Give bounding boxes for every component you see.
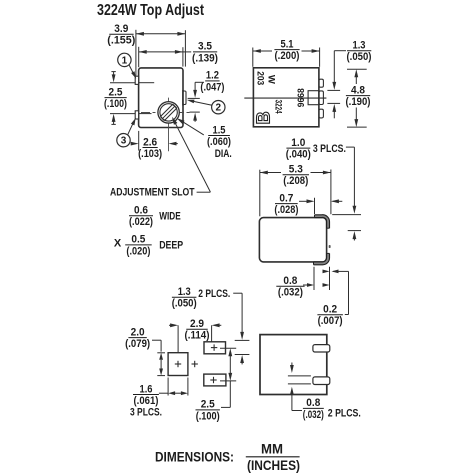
svg-text:1.3: 1.3 [353, 40, 366, 52]
svg-text:2 PLCS.: 2 PLCS. [198, 288, 230, 300]
svg-text:(.028): (.028) [274, 204, 298, 216]
svg-text:(.060): (.060) [207, 136, 231, 148]
svg-text:2.9: 2.9 [190, 318, 204, 330]
svg-text:2 PLCS.: 2 PLCS. [328, 408, 361, 420]
svg-text:(.032): (.032) [278, 287, 303, 299]
svg-text:1.6: 1.6 [140, 383, 153, 395]
svg-text:4.8: 4.8 [351, 84, 365, 96]
svg-text:(.007): (.007) [318, 315, 343, 327]
svg-text:2.5: 2.5 [109, 86, 123, 98]
svg-text:(.200): (.200) [275, 50, 300, 62]
svg-text:(.114): (.114) [185, 330, 210, 342]
svg-text:(.190): (.190) [346, 96, 371, 108]
svg-text:2.6: 2.6 [143, 136, 157, 148]
svg-text:0.5: 0.5 [131, 234, 145, 246]
svg-text:B: B [253, 111, 273, 124]
svg-text:ADJUSTMENT SLOT: ADJUSTMENT SLOT [110, 186, 195, 198]
svg-text:3: 3 [121, 136, 127, 147]
svg-text:(INCHES): (INCHES) [247, 457, 300, 473]
svg-text:DIMENSIONS:: DIMENSIONS: [155, 449, 234, 465]
svg-text:2.5: 2.5 [201, 399, 215, 411]
svg-text:3 PLCS.: 3 PLCS. [130, 407, 162, 419]
svg-text:1.3: 1.3 [178, 286, 191, 298]
svg-text:3224W Top Adjust: 3224W Top Adjust [97, 2, 205, 19]
svg-text:0.2: 0.2 [323, 304, 337, 316]
svg-text:203: 203 [255, 71, 266, 85]
svg-text:(.050): (.050) [347, 51, 372, 63]
svg-text:1.0: 1.0 [291, 137, 305, 149]
svg-text:3224: 3224 [272, 100, 283, 114]
svg-text:(.100): (.100) [196, 410, 220, 422]
svg-text:(.022): (.022) [129, 216, 153, 228]
svg-text:(.103): (.103) [138, 148, 162, 160]
svg-text:(.139): (.139) [192, 52, 218, 64]
svg-text:1: 1 [122, 55, 128, 66]
svg-text:1.2: 1.2 [206, 70, 219, 82]
svg-text:1.5: 1.5 [213, 124, 226, 136]
svg-text:X: X [114, 237, 122, 249]
svg-text:3 PLCS.: 3 PLCS. [313, 143, 346, 155]
svg-text:2.0: 2.0 [131, 326, 145, 338]
svg-text:MM: MM [261, 441, 283, 457]
svg-text:0.8: 0.8 [283, 275, 297, 287]
svg-text:(.155): (.155) [107, 35, 135, 47]
svg-text:(.208): (.208) [283, 175, 308, 187]
svg-text:(.032): (.032) [303, 409, 324, 421]
svg-text:(.079): (.079) [125, 338, 150, 350]
svg-text:0.7: 0.7 [279, 192, 293, 204]
svg-text:(.061): (.061) [134, 395, 159, 407]
svg-text:2: 2 [216, 103, 222, 114]
svg-text:0.6: 0.6 [134, 205, 148, 217]
svg-text:(.020): (.020) [126, 245, 150, 257]
svg-text:0.8: 0.8 [306, 397, 320, 409]
svg-text:5.3: 5.3 [289, 164, 303, 176]
svg-text:5.1: 5.1 [281, 38, 294, 50]
svg-text:W: W [266, 75, 277, 84]
svg-text:WIDE: WIDE [159, 210, 181, 222]
svg-text:(.040): (.040) [286, 149, 311, 161]
svg-text:DIA.: DIA. [215, 148, 232, 160]
svg-text:(.047): (.047) [200, 81, 224, 93]
svg-text:9668: 9668 [296, 88, 307, 107]
svg-text:(.050): (.050) [172, 298, 197, 310]
svg-text:DEEP: DEEP [159, 240, 183, 252]
svg-text:3.5: 3.5 [198, 41, 212, 53]
svg-text:3.9: 3.9 [114, 23, 128, 35]
svg-text:(.100): (.100) [104, 98, 127, 110]
